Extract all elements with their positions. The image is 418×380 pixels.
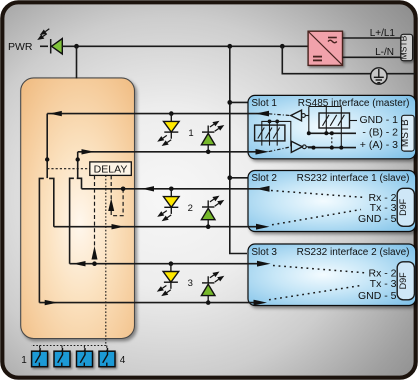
wire cluster2 top — [82, 188, 270, 190]
DELAY dotted output to DIP bus — [31, 175, 106, 345]
earth ground symbol — [371, 68, 387, 84]
wire stub to slot2 — [230, 177, 249, 179]
wire dashed B-A — [331, 133, 333, 147]
DIP switch bus dashed — [40, 346, 85, 352]
svg-text:Slot 2: Slot 2 — [251, 173, 277, 184]
DIP switch S3 — [77, 348, 93, 367]
DELAY dashed output to cluster3 wire — [92, 175, 98, 266]
arrow slot2 bottom (right) — [256, 224, 270, 230]
jumper 2 right prong to cluster2 top wire — [77, 178, 82, 189]
svg-text:1: 1 — [21, 355, 27, 366]
buffer receiver U2a (left-pointing with bubble) — [291, 110, 309, 121]
arrow slot2 top (left) — [256, 186, 270, 192]
slot 2 box RS232-1 — [248, 171, 416, 232]
wire cluster3 bottom — [39, 302, 253, 304]
slot 3 box RS232-2 — [248, 244, 416, 306]
arrow on c2 bottom wire (right) — [112, 224, 125, 229]
node power rail junction — [227, 44, 232, 49]
LED cluster 2 yellow — [157, 187, 179, 222]
DIP switch S1 — [32, 348, 48, 367]
wire PWR stub — [40, 45, 48, 47]
arrow on c3 bottom wire (right) — [45, 300, 58, 305]
svg-text:Slot 1: Slot 1 — [251, 98, 277, 109]
wire stub to slot1 — [230, 101, 249, 103]
svg-text:RS232 interface 2 (slave): RS232 interface 2 (slave) — [297, 247, 410, 258]
wire dotted slot3 Tx — [269, 286, 361, 300]
arrow slot3 top (right) — [257, 261, 271, 267]
orange function box — [21, 78, 135, 339]
svg-text:Slot 3: Slot 3 — [251, 247, 277, 258]
LED PWR (green) — [37, 29, 62, 54]
wire cluster1 bottom — [78, 151, 257, 153]
wire L+/L1 — [343, 37, 402, 39]
svg-text:4: 4 — [120, 355, 126, 366]
svg-text:L+/L1: L+/L1 — [370, 28, 396, 39]
wire dash-dot top (receiver out to arrow) — [269, 114, 290, 116]
DIP switch S2 — [54, 348, 70, 367]
LED cluster 3 yellow — [157, 261, 179, 296]
DELAY dashed output to cluster2 wire — [108, 175, 125, 215]
isolation / termination box right — [319, 113, 357, 128]
wire PWR main horizontal — [62, 45, 308, 47]
svg-text:PWR: PWR — [8, 41, 33, 53]
connector D9F slot2 — [397, 188, 414, 226]
jumper 2 left prong to cluster3 top wire — [70, 178, 74, 263]
wire B line — [309, 132, 356, 134]
svg-text:1: 1 — [188, 128, 193, 139]
svg-text:RS485 interface (master): RS485 interface (master) — [298, 98, 410, 109]
LED cluster 1 yellow — [157, 111, 179, 146]
svg-text:MSTB: MSTB — [400, 119, 411, 147]
wire to earth — [282, 46, 415, 73]
connector MSTB slot1 — [400, 115, 414, 151]
LED cluster 1 green — [201, 121, 224, 154]
connector D9F slot3 — [397, 262, 414, 300]
svg-text:2: 2 — [188, 203, 193, 214]
arrow on c1 bottom wire in orange box (right) — [82, 149, 95, 154]
node PWR-orange junction — [74, 44, 79, 49]
wire dotted slot2 Rx — [271, 191, 365, 198]
wire vertical from c1 top to jumper1 — [46, 114, 48, 179]
jumper 1 right prong to cluster2 bottom wire — [49, 178, 54, 226]
svg-text:GND - 1: GND - 1 — [359, 114, 398, 126]
wire loop top (B network) — [309, 106, 342, 108]
svg-text:D9F: D9F — [398, 198, 408, 216]
svg-text:L-/N: L-/N — [375, 47, 394, 58]
wire down into orange box — [76, 46, 78, 78]
svg-text:GND - 5: GND - 5 — [358, 290, 397, 302]
node slot2 feed — [227, 175, 232, 180]
optocoupler / transformer box left — [255, 120, 285, 146]
arrow on c3 top wire (left) — [73, 261, 86, 266]
arrow slot1 bottom (right) — [256, 149, 270, 155]
wire dash-dot bottom (arrow to driver in) — [269, 147, 290, 152]
buffer driver U2b (right-pointing with bubble) — [291, 141, 313, 152]
node earth branch — [280, 44, 285, 49]
arrow on c1 top wire in orange box (left) — [49, 111, 62, 116]
svg-text:RS232 interface 1 (slave): RS232 interface 1 (slave) — [297, 173, 410, 184]
wire cluster2 bottom — [54, 226, 256, 228]
svg-text:+ (A) - 3: + (A) - 3 — [360, 139, 398, 151]
arrow slot3 bottom (right) — [254, 300, 268, 306]
wire L-/N — [343, 56, 402, 58]
power supply U1 (AC/DC converter) — [308, 31, 342, 65]
wire A line — [308, 147, 356, 149]
svg-text:DELAY: DELAY — [94, 163, 128, 175]
nodes on A line — [312, 146, 316, 150]
node on vertical 1 — [45, 157, 49, 161]
svg-text:- (B) - 2: - (B) - 2 — [362, 126, 398, 138]
LED cluster 2 green — [201, 196, 224, 229]
wire power rail vertical — [230, 46, 247, 253]
wire vertical from c1 bottom to jumper2 — [77, 152, 79, 178]
svg-text:MSTB: MSTB — [399, 35, 409, 59]
node slot1 feed — [227, 100, 232, 105]
node on vertical 2 — [76, 157, 80, 161]
slot 1 box RS485 — [248, 95, 416, 158]
wire cluster1 top (RS485 line to slot1) — [47, 113, 269, 115]
DELAY box — [90, 162, 132, 176]
svg-text:Tx - 3: Tx - 3 — [370, 278, 397, 290]
wire dotted slot3 Rx — [273, 266, 365, 273]
jumper 1 left prong to slot3 bottom wire — [39, 178, 43, 302]
DELAY dashed input — [47, 168, 90, 170]
arrow slot1 top (left) — [256, 111, 270, 117]
svg-text:3: 3 — [188, 278, 193, 289]
LED cluster 3 green — [201, 272, 224, 305]
svg-text:D9F: D9F — [398, 272, 408, 290]
arrow on c2 top wire (left) — [142, 186, 154, 191]
connector MSTB power — [399, 34, 413, 60]
DIP switch S4 — [99, 348, 115, 367]
svg-text:GND - 5: GND - 5 — [358, 213, 397, 225]
nodes on B line — [307, 131, 311, 135]
wire dotted slot2 Tx — [272, 210, 361, 225]
wire loop opto to driver input — [262, 121, 292, 145]
wire cluster3 top — [70, 263, 257, 265]
